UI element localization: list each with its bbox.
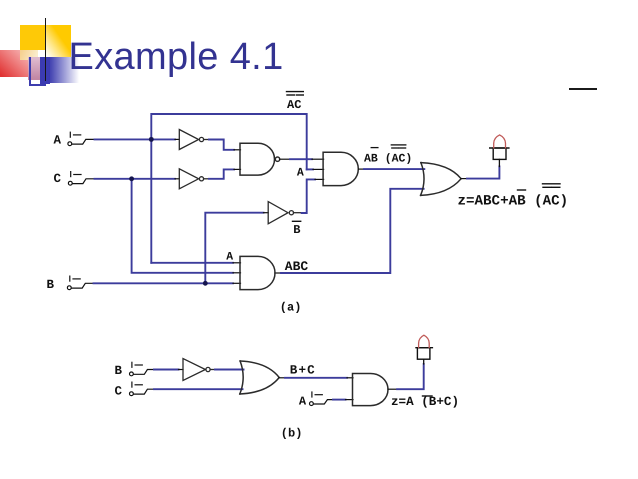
wire C input [95, 178, 176, 180]
svg-text:AC: AC [287, 98, 301, 112]
lamp DS1 [490, 148, 509, 159]
wire NOT2 out to NAND in2 [209, 169, 234, 178]
switch A [68, 132, 95, 145]
svg-text:A: A [226, 251, 233, 263]
inverter U4 (B) [268, 202, 302, 224]
wire NOT3 out up to AND2 in3 [302, 179, 315, 213]
svg-text:AB (AC): AB (AC) [364, 152, 412, 165]
and gate U6 (ABC) [240, 256, 275, 289]
wire A input [95, 138, 176, 140]
decor blue L bracket [29, 57, 31, 86]
svg-text:B: B [293, 223, 300, 237]
nand gate U3 [240, 143, 280, 175]
node C junction [129, 176, 134, 181]
switch C [68, 172, 94, 186]
decor black vertical line [45, 18, 46, 82]
label z=A(B+C) with bar [423, 395, 433, 397]
decor yellow solid square [20, 25, 47, 50]
decor yellow gradient block (right of black line) [46, 25, 71, 57]
wire AND (b) out to lamp (b) [388, 388, 397, 390]
svg-text:ABC: ABC [285, 259, 309, 274]
inverter U2 (C) [179, 169, 209, 189]
or gate U7 [421, 163, 462, 196]
and gate U10 [353, 374, 389, 406]
wire AND2 out to OR1 in1 [359, 168, 365, 170]
wire C feed down to ABC gate input 2 [132, 179, 233, 273]
svg-text:(b): (b) [281, 426, 303, 440]
wire B (b) to inverter [154, 369, 179, 371]
decor pale yellow overlap square [20, 50, 38, 59]
wire ABC out to OR1 in2 [275, 272, 281, 274]
switch B [67, 276, 93, 290]
svg-text:(a): (a) [280, 300, 302, 314]
wire A to ABC gate input 1 [151, 262, 233, 264]
inverter U1 (A) [179, 130, 209, 150]
decor red gradient block [0, 50, 28, 78]
or gate U9 (B+C) [240, 361, 279, 394]
wire OR1 out to lamp [461, 178, 467, 180]
decor pink mauve square [28, 57, 40, 80]
and gate U5 (3-input, AB(AC)) [323, 152, 358, 185]
node A junction [149, 137, 154, 142]
inverter U8 (B) [183, 359, 215, 381]
svg-text:A: A [54, 134, 62, 148]
wire B feed up to NOT3 input [205, 213, 263, 284]
wire A rail stub into AND2 in2 [307, 168, 313, 170]
wire NOT1 out to NAND in1 [209, 140, 234, 150]
svg-text:B: B [115, 364, 123, 378]
wire OR (b) out to AND (b) in1 [279, 377, 285, 379]
svg-text:A: A [299, 394, 307, 408]
svg-text:z=ABC+AB (AC): z=ABC+AB (AC) [458, 193, 569, 209]
title Example 4.1 [69, 38, 284, 76]
svg-text:B+C: B+C [290, 363, 316, 377]
lamp DS2 [416, 348, 432, 360]
label z=ABC+AB(AC) with bars [518, 184, 561, 190]
label Bbar [293, 220, 301, 222]
switch A (b) [310, 392, 334, 406]
switch B (b) [130, 362, 155, 376]
svg-text:z=A (B+C): z=A (B+C) [391, 395, 459, 409]
wire NOT (b) out to OR (b) in1 [215, 369, 244, 371]
svg-text:B: B [47, 278, 55, 292]
wire A feed: junction up to top rail and down to ABC gate [151, 114, 306, 263]
svg-text:C: C [115, 384, 123, 398]
decor blue gradient block [50, 57, 81, 84]
label double overbar AC (top) [287, 92, 304, 95]
wire A (b) to AND (b) in2 [333, 399, 346, 401]
label AB(AC) with bars [371, 145, 406, 148]
svg-text:C: C [54, 172, 62, 186]
decor black dash top right [569, 88, 597, 90]
switch C (b) [130, 382, 155, 396]
decor blue solid bar [40, 57, 50, 85]
wire NAND out to AND2 in1 [280, 158, 290, 160]
wire C (b) to OR (b) in2 [154, 388, 243, 390]
svg-text:A: A [297, 167, 304, 180]
wire B input to ABC gate input 3 [94, 282, 234, 284]
node B junction [203, 281, 208, 286]
